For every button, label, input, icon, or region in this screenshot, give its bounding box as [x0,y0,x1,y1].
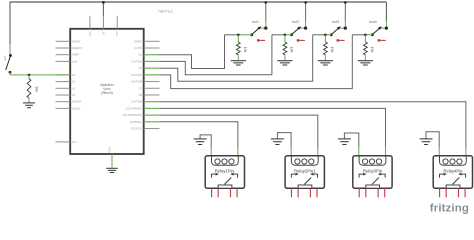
svg-text:D10 PWM/SS: D10 PWM/SS [126,106,142,110]
svg-text:A2: A2 [72,86,76,90]
wire U1 D9 to RELAY4 coil [160,102,466,147]
resistor R3 10k [283,35,294,61]
wire ground hook RELAY3 [344,133,358,147]
svg-text:GND: GND [108,147,112,153]
wire rail to but1 [265,1,268,21]
svg-text:Relay1Pin.: Relay1Pin. [215,169,235,174]
svg-text:D11 PWM/MOSI: D11 PWM/MOSI [123,113,142,117]
junction resistor R2 top [237,34,240,37]
svg-text:Relay4Pin: Relay4Pin [443,169,463,174]
wire 5V rail (top) [10,2,387,45]
svg-text:A1: A1 [72,80,76,84]
svg-text:D9 PWM: D9 PWM [132,100,142,104]
resistor R2 10k [236,35,247,61]
wire ground hook RELAY4 [426,132,439,147]
ground (RELAY4 coil) [420,139,433,145]
wire SW1 to A0 [10,74,70,76]
junction resistor R4 top [324,34,327,37]
svg-text:3V3: 3V3 [88,31,92,36]
svg-text:10k: 10k [330,47,334,53]
wire ground hook RELAY1 [200,135,211,147]
svg-text:10k: 10k [243,47,247,53]
relay RELAY2 Relay2Pin1 [285,147,324,198]
resistor R1 10k [27,75,38,103]
pushbutton but3 [324,20,347,42]
svg-text:D5 PWM: D5 PWM [132,73,142,77]
svg-text:but3: but3 [332,20,339,24]
junction resistor R3 top [284,34,287,37]
ground (RELAY2 coil) [271,139,284,145]
U1 top pins 3V3 5V VIN [88,16,119,36]
svg-text:10k: 10k [34,86,38,92]
pushbutton but2 [284,20,307,42]
svg-text:A0: A0 [72,73,76,77]
svg-text:Relay2Pin1: Relay2Pin1 [294,169,316,174]
svg-text:D2: D2 [139,53,143,57]
svg-text:VIN: VIN [115,31,119,35]
ground (RELAY3 coil) [338,139,351,145]
svg-text:Часть1: Часть1 [158,9,174,15]
svg-text:Relay3Pin: Relay3Pin [363,169,383,174]
junction R1 top [28,74,31,77]
svg-text:ioref: ioref [72,59,77,63]
svg-text:10k: 10k [370,47,374,53]
wire rail to but3 [344,1,347,21]
svg-text:A3: A3 [72,93,76,97]
svg-text:RESET2: RESET2 [72,46,83,50]
wire U1 D10 to RELAY3 coil [160,108,386,147]
svg-text:SW1: SW1 [4,55,7,61]
svg-text:RESET: RESET [72,39,81,43]
svg-text:fritzing: fritzing [430,203,469,214]
svg-text:D7: D7 [139,86,143,90]
wire U1 D11 to RELAY2 coil [160,115,318,147]
svg-text:but1: but1 [252,20,259,24]
ground (RELAY1 coil) [194,139,207,145]
svg-text:D4: D4 [139,66,143,70]
ground (but3 resistor) [318,61,333,65]
wire rail to but2 [304,1,307,21]
svg-text:but2: but2 [292,20,299,24]
svg-text:D0/RX: D0/RX [134,39,142,43]
svg-text:5V: 5V [101,31,105,34]
resistor R4 10k [324,35,335,61]
pushbutton but4 [364,20,388,42]
svg-text:but4: but4 [369,20,376,24]
svg-text:D1/TX: D1/TX [135,46,143,50]
ground (but4 resistor) [358,61,373,65]
junction 5V pin to rail [102,1,105,16]
switch SW1 [4,44,12,75]
svg-text:10k: 10k [290,47,294,53]
label Часть1 [158,9,174,15]
ground (R1) [23,103,35,108]
U1 left pins RESET..A5, N/C [56,39,83,144]
ground (but1 resistor) [231,61,246,65]
wire U1 D12 to RELAY1 coil [160,122,238,147]
svg-text:D6 PWM: D6 PWM [132,80,142,84]
svg-text:D12/MISO: D12/MISO [130,120,142,124]
U1 GND pin [108,147,112,168]
svg-text:D8: D8 [139,93,143,97]
svg-text:A4/SDA: A4/SDA [72,100,81,104]
fritzing watermark [430,203,469,215]
U1 right pins D0..D13 [123,39,160,130]
svg-text:A5/SCL: A5/SCL [72,106,81,110]
microcontroller U1 Arduino Uno (Rev3) [70,29,144,154]
svg-text:AREF: AREF [72,53,79,57]
svg-text:(Rev3): (Rev3) [101,90,113,95]
relay RELAY1 Relay1Pin. [205,147,244,198]
relay RELAY3 Relay3Pin [353,147,392,198]
ground (U1 GND) [106,168,118,172]
relay RELAY4 Relay4Pin [433,147,472,198]
resistor R5 10k [364,35,375,61]
ground (but2 resistor) [277,61,292,65]
svg-text:N/C: N/C [72,140,77,144]
pushbutton but1 [237,20,267,42]
svg-text:D13/SCK: D13/SCK [131,127,142,131]
junction resistor R5 top [364,34,367,37]
svg-text:D3 PWM: D3 PWM [132,59,142,63]
wire U1 D5 to but4 [160,35,366,89]
wire ground hook RELAY2 [277,133,291,147]
